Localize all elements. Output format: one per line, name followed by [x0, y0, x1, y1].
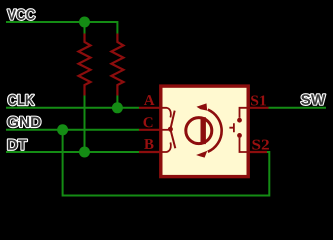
- switch S2 contact dot: [237, 133, 242, 138]
- switch S1 contact: [240, 108, 249, 118]
- rotation arrowhead bottom: [196, 151, 207, 158]
- junction dot VCC/R1: [79, 17, 90, 28]
- switch S1 contact dot: [237, 118, 242, 123]
- junction dot DT/R1: [79, 147, 90, 158]
- wire SW: [269, 107, 327, 109]
- net label DT: [8, 139, 27, 149]
- net label SW: [301, 94, 325, 105]
- switch S2 contact: [240, 138, 249, 152]
- junction dot CLK/R2: [112, 102, 123, 113]
- pin C lead: [139, 129, 161, 131]
- encoder rotor bar: [201, 117, 206, 144]
- pin label S1: [251, 95, 266, 105]
- encoder U1 body: [161, 86, 248, 177]
- pin label C: [144, 117, 153, 127]
- net label VCC: [7, 9, 35, 20]
- wire R2 bottom to CLK: [116, 96, 118, 108]
- wire CLK: [6, 107, 139, 109]
- wire DT: [6, 151, 139, 153]
- resistor R2: [111, 34, 123, 96]
- contact A inside: [161, 108, 171, 118]
- pin label A: [144, 95, 155, 105]
- encoder rotor circle: [186, 118, 212, 144]
- junction dot GND: [57, 124, 68, 135]
- wire GND: [6, 129, 139, 131]
- wire R1 bottom to DT: [84, 96, 86, 153]
- wire GND to bottom loop to S2: [63, 130, 270, 196]
- pin A lead: [139, 107, 161, 109]
- pin S1 lead: [248, 107, 269, 109]
- contact B inside: [161, 142, 171, 152]
- pin S2 lead: [248, 151, 267, 153]
- rotation arrow arc: [208, 110, 222, 152]
- pin label B: [144, 139, 153, 149]
- net label GND: [8, 117, 41, 128]
- rotation arrowhead top: [197, 103, 208, 110]
- pin label S2: [252, 140, 269, 150]
- net label CLK: [8, 95, 34, 106]
- resistor R1: [79, 34, 91, 96]
- wiper pivot dot: [168, 127, 173, 132]
- pin B lead: [139, 151, 161, 153]
- switch actuator: [229, 123, 234, 132]
- wiper arm up: [170, 111, 174, 130]
- wiper C stub: [161, 129, 168, 131]
- wire VCC rail: [6, 22, 117, 34]
- wiper arm down: [170, 129, 175, 148]
- wire R1 top lead to VCC: [84, 22, 86, 34]
